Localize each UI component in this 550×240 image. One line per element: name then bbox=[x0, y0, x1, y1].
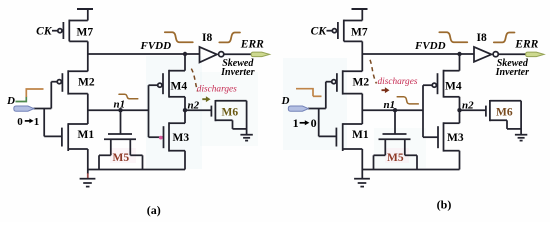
brace squiggle right of I8 panel a bbox=[219, 33, 240, 43]
transistor M6 (MOS capacitor on n2) panel a bbox=[211, 100, 246, 135]
arrow of 0 to 1 label panel a bbox=[25, 120, 30, 122]
ground symbol under M6 panel a bbox=[240, 135, 252, 141]
wire M1 gate horizontal panel b bbox=[319, 135, 337, 137]
wire D to M1 gate vertical panel a bbox=[43, 109, 45, 137]
transistor M7 (PMOS, clock gating) panel b bbox=[327, 9, 363, 41]
junction dot FVDD to M4 panel a bbox=[183, 52, 187, 56]
svg-text:Inverter: Inverter bbox=[495, 67, 529, 78]
svg-text:M3: M3 bbox=[447, 132, 464, 144]
svg-text:discharges: discharges bbox=[378, 77, 418, 87]
svg-text:1: 1 bbox=[34, 116, 40, 128]
transistor M7 (PMOS, clock gating) panel a bbox=[52, 9, 88, 41]
VDD supply bar panel a bbox=[77, 8, 93, 10]
transistor M3 (NMOS) panel a bbox=[149, 122, 186, 151]
svg-text:M2: M2 bbox=[353, 77, 370, 89]
transistor M4 (PMOS) panel b bbox=[423, 54, 460, 98]
wire M7 source to M2 drain panel b bbox=[361, 41, 363, 71]
ground rail panel a bbox=[88, 169, 185, 171]
ground symbol under M6 panel b bbox=[515, 135, 527, 141]
svg-text:M5: M5 bbox=[387, 152, 404, 164]
svg-text:M7: M7 bbox=[351, 27, 368, 39]
svg-text:M7: M7 bbox=[77, 27, 94, 39]
wire M4 source to M3 drain panel a bbox=[184, 97, 186, 123]
dashed discharge arc near M4 panel a bbox=[191, 69, 197, 92]
junction dot n2 panel a bbox=[183, 108, 187, 112]
wire node n2 to M6 gate panel b bbox=[460, 109, 486, 111]
junction dot n2 panel b bbox=[457, 108, 461, 112]
wire M3 source to ground rail panel a bbox=[184, 151, 186, 170]
brace squiggle right of I8 panel b bbox=[494, 33, 515, 43]
svg-text:n2: n2 bbox=[188, 99, 200, 111]
brace squiggle right of FVDD panel a bbox=[165, 32, 193, 42]
dashed discharge arc near M2 panel b bbox=[370, 60, 377, 84]
D input pin arrow panel b bbox=[288, 106, 308, 111]
transistor M1 (NMOS) panel a bbox=[62, 123, 88, 151]
transistor M3 (NMOS) panel b bbox=[423, 122, 460, 151]
wire M2 source to M1 drain panel b bbox=[361, 94, 363, 124]
arrow of 1 to 0 label panel b bbox=[300, 122, 306, 124]
svg-text:n1: n1 bbox=[114, 99, 126, 111]
svg-text:FVDD: FVDD bbox=[140, 40, 172, 52]
transistor M2 (PMOS) panel a bbox=[51, 70, 88, 94]
junction dot n1 to M5 panel a bbox=[118, 108, 122, 112]
wire node n2 to M6 gate panel a bbox=[185, 109, 211, 111]
wire M3 source to ground rail panel b bbox=[459, 151, 461, 170]
wire M7 source to M2 drain panel a bbox=[87, 41, 89, 71]
tint regions (decorative, not labelled individually) bbox=[146, 56, 202, 169]
svg-text:1: 1 bbox=[293, 116, 299, 130]
squiggle right of n1 panel b bbox=[397, 97, 418, 104]
svg-text:I8: I8 bbox=[202, 32, 212, 44]
svg-text:CK: CK bbox=[36, 25, 53, 37]
svg-text:D: D bbox=[281, 95, 290, 107]
D input pin arrow panel a bbox=[14, 106, 34, 111]
svg-text:(b): (b) bbox=[437, 198, 452, 212]
transistor M5 (MOS capacitor on n1) panel b bbox=[374, 110, 418, 169]
pink tick mark on M3 gate wire panel a bbox=[159, 136, 163, 140]
node A: falling input waveform glyph panel b bbox=[296, 89, 313, 97]
ERR output pin arrow panel b bbox=[526, 52, 545, 57]
transistor M5 (MOS capacitor on n1) panel a bbox=[99, 110, 143, 169]
wire inverter output to ERR panel b bbox=[498, 53, 526, 55]
svg-text:D: D bbox=[6, 95, 15, 107]
svg-text:ERR: ERR bbox=[240, 39, 264, 51]
wire M1 source to ground rail panel b bbox=[361, 149, 363, 170]
ground rail panel b bbox=[362, 169, 459, 171]
transistor M6 (MOS capacitor on n2) panel b bbox=[486, 100, 521, 135]
ground symbol panel a bbox=[80, 170, 96, 187]
wire M4 source to M3 drain panel b bbox=[459, 97, 461, 123]
ground symbol panel b bbox=[354, 170, 370, 187]
svg-text:M6: M6 bbox=[222, 106, 239, 118]
svg-text:FVDD: FVDD bbox=[414, 40, 446, 52]
junction dot FVDD to M4 panel b bbox=[457, 52, 461, 56]
transistor M1 (NMOS) panel b bbox=[336, 123, 362, 151]
svg-text:discharges: discharges bbox=[197, 85, 237, 95]
svg-text:M5: M5 bbox=[113, 152, 130, 164]
svg-text:ERR: ERR bbox=[514, 39, 538, 51]
transistor M4 (PMOS) panel a bbox=[149, 54, 186, 98]
op-amp style inverter I8 (skewed inverter) panel a bbox=[200, 47, 224, 62]
wire FVDD net panel b bbox=[362, 53, 474, 55]
wire n1 to M4/M3 gates vertical panel a bbox=[148, 85, 150, 137]
wire node n1 horizontal panel a bbox=[88, 109, 149, 111]
wire D input horizontal panel b bbox=[308, 108, 326, 110]
brace squiggle right of FVDD panel b bbox=[439, 32, 467, 42]
svg-text:M6: M6 bbox=[496, 106, 513, 118]
wire n1 to M4/M3 gates vertical panel b bbox=[422, 85, 424, 137]
discharge arrow toward M6 panel a bbox=[202, 96, 210, 102]
svg-text:M3: M3 bbox=[173, 132, 190, 144]
wire D to M2 gate vertical panel a bbox=[50, 82, 52, 109]
wire D to M2 gate vertical panel b bbox=[325, 82, 327, 109]
wire D input horizontal panel a bbox=[34, 108, 52, 110]
ERR output pin arrow panel a bbox=[251, 52, 270, 57]
svg-text:M2: M2 bbox=[78, 77, 95, 89]
transistor M2 (PMOS) panel b bbox=[326, 70, 363, 94]
svg-text:M1: M1 bbox=[78, 129, 95, 141]
svg-text:CK: CK bbox=[311, 25, 328, 37]
wire M1 source to ground rail panel a bbox=[87, 149, 89, 170]
svg-text:M1: M1 bbox=[352, 129, 369, 141]
wire D to M1 gate vertical panel b bbox=[318, 109, 320, 137]
wire M1 gate horizontal panel a bbox=[44, 135, 62, 137]
wire FVDD net panel a bbox=[88, 53, 200, 55]
svg-text:M4: M4 bbox=[171, 80, 188, 92]
node A: rising input waveform glyph panel a bbox=[16, 97, 27, 102]
svg-text:(a): (a) bbox=[147, 203, 161, 217]
squiggle right of n1 panel a bbox=[119, 94, 138, 99]
svg-text:n2: n2 bbox=[462, 99, 474, 111]
svg-text:0: 0 bbox=[17, 116, 23, 128]
svg-text:M4: M4 bbox=[445, 80, 462, 92]
svg-text:I8: I8 bbox=[477, 32, 487, 44]
wire M2 source to M1 drain panel a bbox=[87, 94, 89, 124]
svg-text:n1: n1 bbox=[384, 99, 396, 111]
svg-text:Inverter: Inverter bbox=[220, 67, 254, 78]
VDD supply bar panel b bbox=[352, 8, 368, 10]
junction dot n1 to M5 panel b bbox=[393, 108, 397, 112]
discharge arrow toward n1 panel b bbox=[382, 87, 390, 93]
op-amp style inverter I8 (skewed inverter) panel b bbox=[474, 47, 498, 62]
wire node n1 horizontal panel b bbox=[362, 109, 423, 111]
wire inverter output to ERR panel a bbox=[224, 53, 252, 55]
svg-text:0: 0 bbox=[311, 116, 317, 130]
